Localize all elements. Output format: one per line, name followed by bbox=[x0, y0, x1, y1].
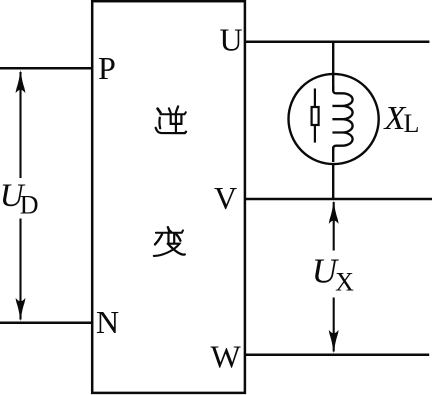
terminal label P bbox=[98, 50, 116, 86]
label X_L bbox=[383, 100, 420, 138]
fuse element body (rectangle) bbox=[312, 107, 319, 125]
dimension arrow U_D shaft (lower segment) bbox=[19, 219, 21, 320]
svg-text:X: X bbox=[335, 268, 354, 297]
label U_X bbox=[312, 251, 354, 296]
terminal label W bbox=[211, 339, 242, 375]
terminal label N bbox=[96, 304, 119, 340]
reactor branch inside circle (upper segment) bbox=[332, 74, 334, 90]
wire V (phase V output) bbox=[244, 198, 432, 201]
arrowhead U_D up bbox=[16, 70, 26, 94]
svg-text:L: L bbox=[404, 109, 420, 138]
dimension arrow U_D shaft (upper segment) bbox=[19, 72, 21, 178]
dimension arrow U_X shaft (upper segment) bbox=[333, 202, 335, 251]
svg-text:D: D bbox=[20, 191, 39, 220]
svg-text:P: P bbox=[98, 50, 116, 86]
arrowhead U_D down bbox=[16, 298, 26, 322]
fuse element lead bottom bbox=[314, 125, 316, 143]
label U_D bbox=[0, 178, 39, 220]
terminal label U bbox=[220, 22, 243, 58]
svg-text:W: W bbox=[211, 339, 242, 375]
fuse element lead top bbox=[314, 89, 316, 108]
svg-text:V: V bbox=[214, 180, 237, 216]
arrowhead U_X up bbox=[329, 200, 339, 224]
arrowhead U_X down bbox=[329, 330, 339, 354]
reactor branch inside circle (lower segment) bbox=[332, 147, 334, 162]
label 逆 (Chinese: inverse) hand-drawn strokes bbox=[156, 106, 186, 133]
svg-text:U: U bbox=[220, 22, 243, 58]
wire W (phase W output) bbox=[244, 353, 429, 356]
label 变 (Chinese: convert) hand-drawn strokes bbox=[154, 227, 185, 256]
wire N (DC - input) bbox=[0, 321, 92, 324]
wire P (DC + input) bbox=[0, 67, 92, 70]
dimension arrow U_X shaft (lower segment) bbox=[333, 298, 335, 352]
terminal label V bbox=[214, 180, 237, 216]
svg-text:N: N bbox=[96, 304, 119, 340]
inverter box U1 (逆变 inverter block) bbox=[92, 1, 245, 393]
wire reactor branch (U wire down to V wire) bbox=[332, 42, 334, 199]
wire U (phase U output) bbox=[244, 40, 429, 43]
reactor X_L circle body bbox=[289, 74, 379, 164]
inductor coil L (4 semicircular bumps) bbox=[332, 86, 352, 151]
